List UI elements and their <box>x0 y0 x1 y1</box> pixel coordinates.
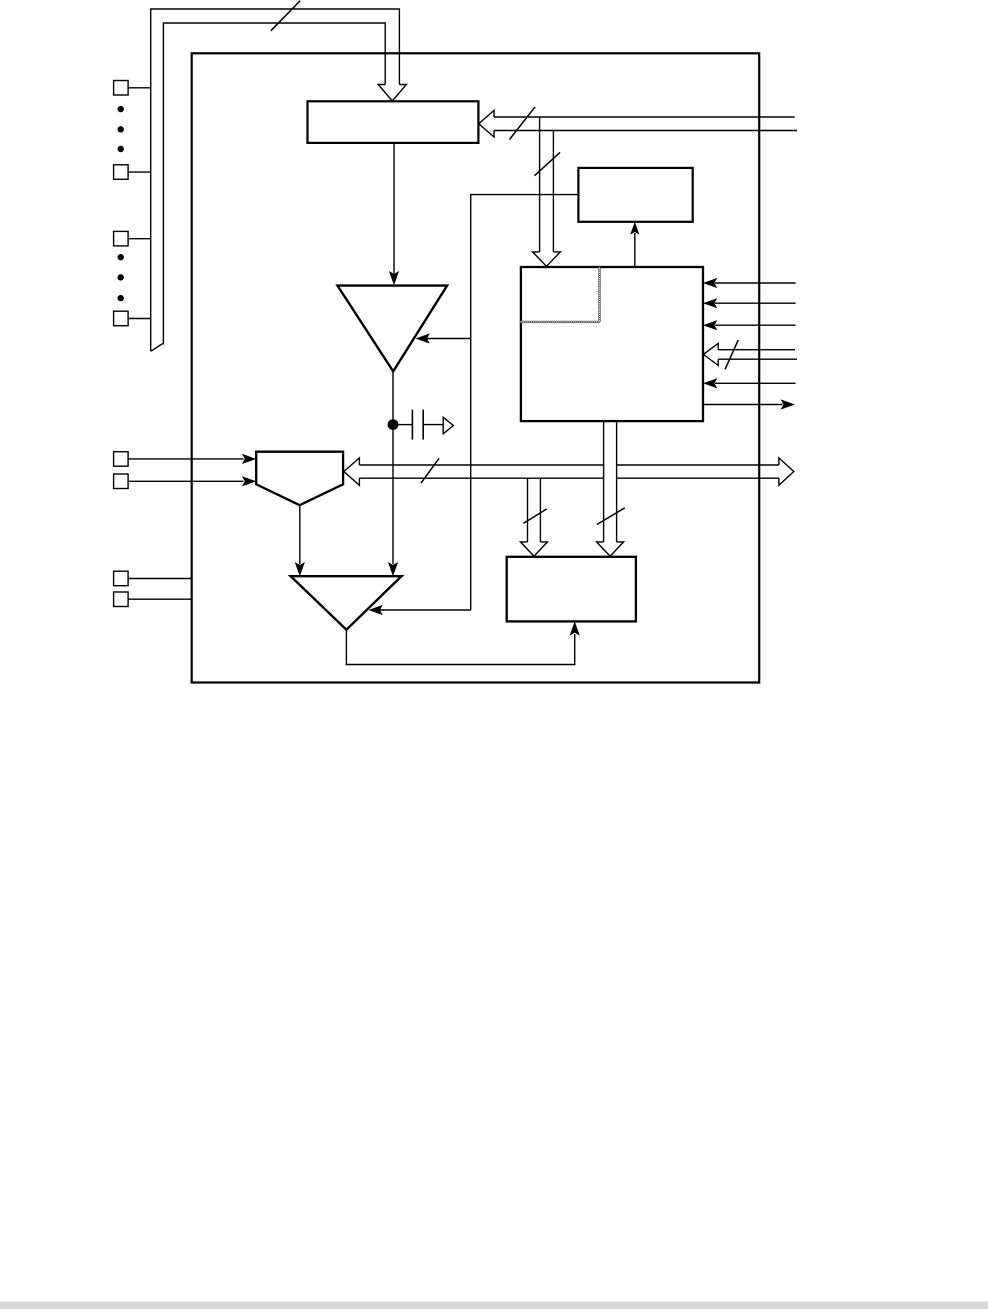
capacitor plate 2 <box>422 410 424 440</box>
pin stub P8 <box>128 598 192 600</box>
ellipsis dots group 1 <box>118 106 124 112</box>
control arrow into DAC triangle right slope <box>427 338 471 340</box>
pin stub P4 <box>128 318 151 320</box>
control input arrow 2 <box>715 302 796 304</box>
pin square P3 <box>114 231 129 246</box>
pin stub P3 <box>128 238 151 240</box>
SAR box <box>507 557 636 622</box>
DAC amp triangle <box>338 286 448 372</box>
left address bus inner wire <box>163 23 385 345</box>
hollow arrowhead into top register right edge <box>479 110 494 137</box>
pin stub P1 <box>128 87 151 89</box>
bus width slash (top register bus) <box>510 107 536 140</box>
pin square P4 <box>114 311 129 326</box>
control logic block <box>521 267 703 421</box>
bus width slash (SAR left bus) <box>523 509 546 524</box>
bus width slash (control bus) <box>725 340 738 369</box>
bus width slash (SAR right bus) <box>597 508 625 525</box>
control output arrow <box>703 404 783 406</box>
bus width slash (top) <box>271 1 300 31</box>
control input arrow 3 <box>715 324 796 326</box>
mid data bus lower line <box>359 477 779 479</box>
capacitor lead right <box>424 424 443 426</box>
arrow up into small register bottom <box>634 233 636 267</box>
hollow arrowhead out right end of mid bus <box>779 458 794 485</box>
comparator triangle <box>291 576 402 630</box>
node wire to small register and down <box>471 195 579 610</box>
hollow arrowhead into mux right edge <box>344 458 360 485</box>
control input bus (hollow arrow) <box>718 349 795 351</box>
pin square P5 <box>114 452 129 467</box>
pin square P8 <box>114 592 129 607</box>
mux <box>256 452 343 506</box>
bus width slash (mid bus) <box>421 458 439 483</box>
node wire from DAC output down to comparator <box>392 371 394 564</box>
node junction dot <box>388 419 399 430</box>
capacitor lead left <box>399 424 413 426</box>
vertical bus branch to control block <box>539 117 541 252</box>
pin stub P7 <box>128 578 192 580</box>
comparator feedback wire to SAR <box>346 630 574 665</box>
capacitor plate 1 <box>411 410 413 440</box>
pin square P6 <box>114 474 129 489</box>
control input arrow 1 <box>715 282 796 284</box>
chip boundary <box>192 53 760 682</box>
wire from top register into DAC triangle <box>393 143 395 274</box>
pin square P2 <box>114 165 129 180</box>
mux output wire to comparator <box>299 505 301 564</box>
pin square P1 <box>114 81 129 96</box>
ellipsis dots group 2 <box>118 254 124 260</box>
hollow bus arrowhead into top register <box>378 85 406 101</box>
data bus wires into top register (from right) <box>494 116 795 118</box>
hollow arrowhead into control block top <box>533 252 561 266</box>
footer gray bar <box>0 1302 988 1309</box>
open buffer arrowhead <box>443 417 453 434</box>
control arrow into comparator right slope <box>380 609 471 611</box>
pin square P7 <box>114 571 129 586</box>
pin stub P2 <box>128 171 151 173</box>
bus open-end diagonal tick <box>151 344 163 352</box>
gray dotted sub-block <box>521 268 600 322</box>
mid data bus upper line <box>359 464 779 466</box>
control input arrow 4 <box>715 382 796 384</box>
top register box <box>308 101 479 143</box>
bus arrow from mid bus into SAR <box>527 478 529 542</box>
left address bus outer wire <box>151 9 400 351</box>
bus from control block bottom into SAR <box>603 421 605 542</box>
small register box <box>578 168 692 222</box>
bus width slash (vertical branch) <box>535 152 561 175</box>
mux input wire B <box>128 480 243 482</box>
mux input wire A <box>128 458 243 460</box>
